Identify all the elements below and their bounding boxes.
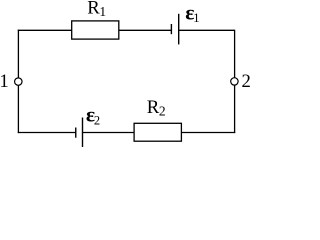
node 2 [231,78,238,85]
wire bottom middle segment [83,132,135,134]
wire bottom-left horizontal segment [18,132,76,134]
label R2 [147,97,166,118]
svg-text:R: R [87,0,100,19]
battery E2 long plate [82,118,84,148]
label epsilon1 [185,1,199,25]
svg-text:1: 1 [193,11,199,25]
svg-text:2: 2 [159,103,166,118]
wire left lower vertical segment [17,85,19,133]
resistor R1 [72,21,119,39]
battery E2 short plate [75,128,77,138]
wire top middle segment [119,29,172,31]
wire right lower vertical segment [234,85,236,133]
battery E1 short plate [170,24,172,34]
svg-text:1: 1 [99,4,106,19]
battery E1 long plate [178,14,180,45]
svg-text:2: 2 [94,114,100,128]
node 1 [15,78,22,85]
wire top-right horizontal segment [179,29,235,31]
svg-text:1: 1 [0,71,9,92]
label R1 [87,0,106,19]
svg-text:2: 2 [242,71,251,92]
svg-text:R: R [147,97,160,118]
wire left upper vertical segment [17,30,19,78]
wire right upper vertical segment [234,30,236,78]
resistor R2 [134,123,181,141]
label epsilon2 [86,103,100,128]
wire bottom-right horizontal segment [182,132,236,134]
wire top-left horizontal segment [18,29,72,31]
